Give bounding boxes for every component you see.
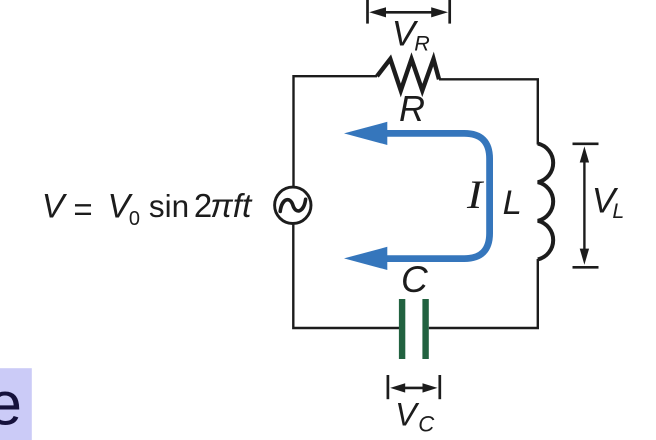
svg-text:=: = (73, 191, 92, 228)
svg-text:e: e (0, 370, 22, 438)
svg-text:0: 0 (129, 208, 140, 230)
svg-text:sin: sin (149, 188, 189, 224)
svg-text:C: C (401, 259, 428, 300)
svg-text:L: L (612, 199, 624, 223)
svg-text:πft: πft (210, 188, 253, 225)
svg-text:R: R (399, 88, 425, 129)
svg-text:I: I (466, 174, 485, 218)
svg-text:V: V (395, 397, 420, 433)
svg-text:R: R (414, 31, 430, 55)
svg-text:C: C (418, 411, 435, 436)
svg-text:V: V (42, 187, 68, 225)
svg-text:L: L (503, 184, 522, 222)
